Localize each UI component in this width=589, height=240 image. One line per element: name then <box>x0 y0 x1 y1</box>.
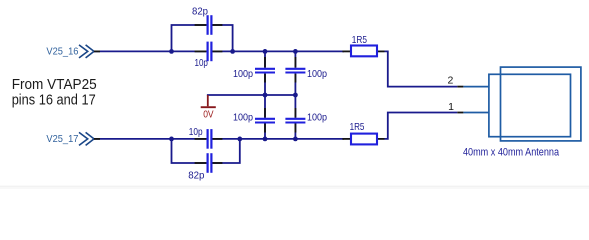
svg-text:0V: 0V <box>203 109 213 121</box>
svg-text:100p: 100p <box>307 68 327 80</box>
junction column 2 / top rail <box>293 49 298 54</box>
terminal V25_16 <box>46 45 94 58</box>
junction column 2 / middle rail <box>293 93 298 98</box>
junction column 1 / bottom rail <box>263 137 268 142</box>
junction bottom-left of 10p/82p pair <box>169 137 174 142</box>
svg-text:82p: 82p <box>192 5 208 17</box>
terminal V25_17 pin end <box>94 138 100 140</box>
svg-text:1R5: 1R5 <box>350 121 365 133</box>
capacitor 10p (top rail) <box>195 42 223 70</box>
capacitor 100p (column 1 upper) <box>233 57 275 83</box>
svg-text:10p: 10p <box>195 57 209 69</box>
capacitor 82p (bottom branch) <box>188 153 222 181</box>
status bar band <box>0 186 589 189</box>
resistor 1R5 (bottom) <box>342 121 384 144</box>
wire column 2 <box>294 51 296 138</box>
svg-text:100p: 100p <box>233 112 253 124</box>
capacitor 82p (top branch) <box>192 5 222 35</box>
wire column 1 <box>264 51 266 138</box>
svg-text:82p: 82p <box>188 169 204 181</box>
antenna pin 1 <box>463 112 489 114</box>
wire top branch loop for 82p <box>172 25 233 51</box>
wire net V25_17 bottom rail <box>94 138 344 140</box>
svg-text:pins 16 and 17: pins 16 and 17 <box>12 92 96 109</box>
capacitor 100p (column 2 lower) <box>285 108 327 133</box>
antenna pin 2 <box>463 86 489 88</box>
capacitor 10p (bottom rail) <box>189 126 223 149</box>
junction top-right of 82p/10p pair <box>230 49 235 54</box>
junction column 1 / top rail <box>263 49 268 54</box>
junction bottom-right of 10p/82p pair <box>237 137 242 142</box>
svg-text:10p: 10p <box>189 126 203 138</box>
svg-text:2: 2 <box>447 74 453 86</box>
capacitor 100p (column 2 upper) <box>285 57 327 83</box>
terminal V25_17 <box>46 132 94 145</box>
annotation: From VTAP25 pins 16 and 17 <box>12 76 97 109</box>
junction column 2 / bottom rail <box>293 137 298 142</box>
svg-text:V25_16: V25_16 <box>46 45 78 57</box>
wire bottom rail to antenna pin 1 <box>385 113 458 139</box>
antenna outline back rectangle <box>501 67 581 141</box>
ground 0V <box>201 95 216 121</box>
antenna pin 2 end <box>457 86 463 88</box>
antenna outline front rectangle <box>489 74 571 136</box>
wire top rail to antenna pin 2 <box>385 51 458 86</box>
svg-text:100p: 100p <box>233 68 253 80</box>
wire bottom branch loop for 82p <box>172 139 240 163</box>
svg-text:1: 1 <box>448 101 454 113</box>
capacitor 100p (column 1 lower) <box>233 108 275 133</box>
svg-text:V25_17: V25_17 <box>46 133 78 145</box>
wire net V25_16 top rail <box>94 50 344 52</box>
svg-text:100p: 100p <box>307 111 327 123</box>
resistor 1R5 (top) <box>342 34 384 56</box>
svg-text:40mm x 40mm Antenna: 40mm x 40mm Antenna <box>463 147 560 159</box>
svg-text:From VTAP25: From VTAP25 <box>12 76 97 93</box>
terminal V25_16 pin end <box>94 50 100 52</box>
junction column 1 / middle rail <box>263 93 268 98</box>
svg-text:1R5: 1R5 <box>352 34 367 46</box>
antenna pin 1 end <box>457 112 463 114</box>
junction top-left of 82p/10p pair <box>169 49 174 54</box>
wire middle rail (ground net) <box>207 94 296 96</box>
